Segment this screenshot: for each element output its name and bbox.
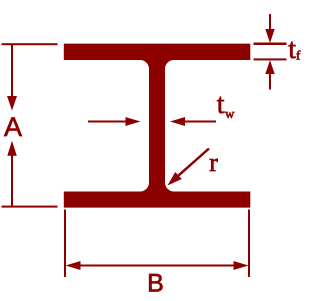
dimension A: lower dimension line bbox=[11, 155, 13, 206]
dimension A: lower arrowhead (points up) bbox=[7, 141, 16, 156]
dimension B: dimension line bbox=[79, 265, 235, 267]
dimension B: left extension line bbox=[64, 210, 66, 278]
dimension B: right arrowhead (points right) bbox=[234, 261, 249, 270]
dimension r: leader line bbox=[178, 149, 209, 176]
dimension A: bottom extension line bbox=[2, 206, 58, 208]
dimension t_f: top extension line bbox=[254, 43, 287, 46]
dimension t_f: upper arrow line bbox=[269, 14, 271, 30]
svg-text:r: r bbox=[209, 148, 218, 177]
svg-text:f: f bbox=[296, 48, 301, 63]
dimension B: left arrowhead (points left) bbox=[66, 261, 81, 270]
dimension B: right extension line bbox=[248, 210, 250, 278]
svg-text:B: B bbox=[147, 270, 164, 298]
dimension t_w: right arrow line bbox=[184, 121, 216, 123]
svg-text:A: A bbox=[4, 112, 22, 142]
dimension A: upper arrowhead (points down) bbox=[7, 96, 17, 111]
dimension t_f: upper arrowhead (points down) bbox=[265, 29, 274, 43]
dimension t_w: right arrowhead (points left) bbox=[170, 117, 185, 126]
dimension A: top extension line bbox=[2, 43, 58, 45]
I-beam cross-section bbox=[64, 44, 251, 208]
dimension t_w: left arrowhead (points right) bbox=[126, 117, 141, 126]
dimension A: upper dimension line bbox=[11, 44, 13, 97]
dimension r: arrowhead (points lower-left) bbox=[168, 172, 182, 186]
dimension t_f: lower arrow line bbox=[269, 73, 271, 90]
dimension t_w: left arrow line bbox=[88, 121, 126, 123]
svg-text:t: t bbox=[217, 89, 225, 120]
dimension t_f: lower arrowhead (points up) bbox=[265, 60, 274, 74]
svg-text:w: w bbox=[225, 106, 235, 121]
dimension t_f: bottom extension line bbox=[254, 58, 287, 60]
